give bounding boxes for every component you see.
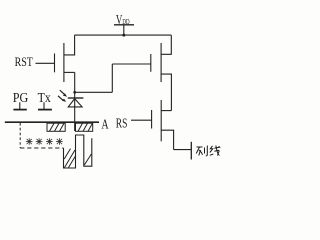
- wire: source-follower gate lead: [112, 63, 151, 65]
- wire: RST gate lead: [36, 62, 55, 64]
- light arrow 2: [58, 96, 66, 102]
- silicon surface line: [5, 121, 99, 123]
- n+ diffusion box 1 (hatched): [47, 123, 65, 131]
- n+ diffusion box 2 (hatched): [76, 123, 93, 131]
- wire: Q2 drain tap and riser to rail: [161, 35, 171, 54]
- glyph 线: [210, 146, 220, 156]
- svg-text:A: A: [101, 116, 109, 132]
- wire: Q3 source tap and drop: [161, 130, 173, 149]
- charge hatch in right well: [84, 154, 91, 165]
- potential well profile polyline: [64, 135, 92, 168]
- wire: node A horizontal run: [75, 91, 113, 93]
- wire: riser to source-follower gate: [111, 64, 113, 92]
- wire: Q1 source tap: [64, 71, 75, 73]
- photogate PG plate: [13, 109, 26, 111]
- photo-generated charge marks: [26, 138, 63, 145]
- svg-text:RS: RS: [116, 117, 128, 131]
- column line terminal bar: [190, 142, 192, 160]
- svg-text:RST: RST: [15, 56, 33, 69]
- light arrow 1: [60, 90, 67, 97]
- photogate PG lead: [19, 102, 21, 109]
- wire: node A column (RST source to diffusion): [74, 72, 76, 131]
- wire: top VDD rail: [75, 34, 172, 36]
- wire: column line stub: [174, 149, 192, 151]
- photodiode D1 cathode bar: [68, 97, 84, 99]
- wire: Q1 drain tap and riser to rail: [64, 35, 75, 55]
- transfer gate Tx lead: [43, 102, 45, 109]
- junction dot on VDD rail: [122, 34, 125, 37]
- wire: VDD stem: [123, 25, 125, 35]
- transistor Q3 gate bar: [151, 110, 153, 129]
- photodiode D1 triangle: [68, 99, 82, 107]
- wire: Q2 source tap and drop to Q3 drain: [161, 74, 171, 111]
- dashed empty-well potential line under PG: [20, 123, 63, 148]
- svg-text:PG: PG: [13, 89, 29, 105]
- column line label 列线: [196, 146, 220, 156]
- charge hatch in left well: [64, 149, 75, 168]
- transistor Q2 channel bar: [160, 43, 162, 82]
- transistor Q3 channel bar: [160, 100, 162, 141]
- power supply bar: [114, 24, 134, 26]
- transistor Q1 channel bar: [63, 43, 65, 82]
- transfer gate Tx plate: [38, 109, 52, 111]
- wire: Q3 drain tap: [161, 110, 171, 112]
- glyph 列: [196, 146, 207, 156]
- transistor Q1 gate bar: [54, 54, 56, 73]
- junction dot at node A tee: [73, 91, 76, 94]
- transistor Q2 source-follower gate bar: [150, 54, 152, 72]
- wire: RS gate lead: [131, 119, 152, 121]
